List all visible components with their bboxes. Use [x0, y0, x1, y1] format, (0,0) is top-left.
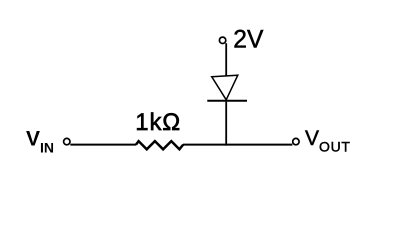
wire VIN to resistor	[70, 144, 136, 146]
svg-text:VOUT: VOUT	[305, 127, 351, 155]
terminal VOUT	[293, 138, 299, 144]
svg-text:2V: 2V	[233, 27, 264, 54]
terminal 2V	[219, 37, 225, 43]
diode cathode bar	[207, 100, 247, 102]
wire diode to node	[225, 102, 227, 146]
resistor 1kΩ	[136, 141, 183, 149]
terminal VIN	[64, 138, 70, 144]
svg-text:VIN: VIN	[26, 128, 54, 156]
wire resistor to VOUT	[183, 144, 292, 146]
diode triangle	[212, 75, 238, 100]
wire 2V terminal to diode	[225, 43, 227, 76]
svg-text:1kΩ: 1kΩ	[135, 109, 181, 136]
